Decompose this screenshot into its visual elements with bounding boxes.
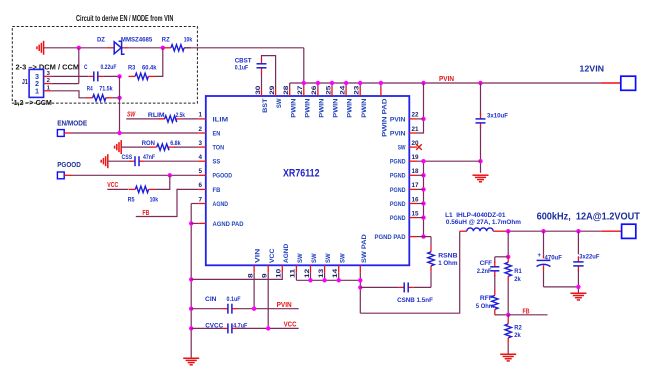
svg-text:PWIN PAD: PWIN PAD: [382, 98, 389, 136]
resistor R3 60.4k: [129, 75, 136, 77]
junction FB node: [506, 313, 510, 317]
svg-text:27: 27: [297, 85, 304, 95]
svg-text:FB: FB: [213, 187, 221, 194]
svg-text:AGND PAD: AGND PAD: [213, 221, 244, 228]
svg-text:R5: R5: [128, 197, 135, 204]
svg-text:6.8k: 6.8k: [170, 140, 181, 147]
ground (rotated) at CSS: [107, 154, 109, 168]
junctions on PVIN bus: [302, 81, 306, 85]
svg-text:2k: 2k: [514, 332, 521, 339]
svg-text:FB: FB: [523, 308, 530, 315]
wire: R3 up to DZ/RZ node: [155, 48, 163, 77]
svg-text:3x22uF: 3x22uF: [579, 254, 599, 261]
wire: pin 30 BST up to CBST: [261, 73, 263, 89]
svg-text:PVIN: PVIN: [439, 76, 454, 83]
wire: J1 pin3 to capacitor C: [51, 75, 88, 77]
wire: RLIM to pin 1 ILIM: [182, 118, 198, 120]
svg-text:1 Ohm: 1 Ohm: [438, 260, 457, 267]
capacitor CFF 2.2nF (vertical): [494, 257, 496, 263]
resistor RZ: [164, 47, 171, 49]
svg-text:SW: SW: [339, 253, 346, 263]
svg-text:PVIN: PVIN: [277, 302, 292, 309]
wire: CSNB to RSNB bottom: [414, 286, 431, 288]
wire: VCC to R5: [107, 188, 128, 190]
connector J1: [29, 69, 43, 97]
wire: pin 8 VIN down to CIN row: [253, 273, 255, 309]
zener diode DZ MMSZ4685: [107, 47, 115, 49]
svg-text:28: 28: [283, 85, 290, 95]
wire: pin 19 PGND to 3x10uF bottom: [417, 160, 481, 162]
svg-text:10: 10: [276, 268, 283, 278]
svg-text:PVIN: PVIN: [390, 116, 406, 123]
junction EN / divider node: [117, 131, 121, 135]
svg-text:PGND PAD: PGND PAD: [375, 234, 406, 241]
ground below R2: [500, 353, 516, 355]
wire: CSNB row: [360, 286, 398, 288]
dashed box: Circuit to derive EN / MODE from VIN: [12, 27, 197, 104]
svg-text:CSS: CSS: [122, 154, 133, 161]
svg-text:6: 6: [198, 182, 202, 189]
wire: 470uF bottom to gnd node: [544, 286, 579, 288]
svg-text:3: 3: [198, 140, 202, 147]
svg-text:SW: SW: [325, 253, 332, 263]
svg-text:0.1uF: 0.1uF: [227, 296, 241, 303]
svg-text:8: 8: [247, 273, 254, 278]
IC XR76112 body: [206, 96, 409, 265]
wire: R5 up to PGOOD net: [155, 175, 170, 189]
svg-text:PWIN: PWIN: [319, 98, 326, 117]
svg-text:7: 7: [198, 196, 202, 203]
resistor RLIM 2.5k: [158, 118, 165, 120]
inductor L1 IHLP-4040DZ-01: [460, 230, 467, 232]
svg-text:47nF: 47nF: [143, 154, 155, 161]
svg-text:600kHz, 12A@1.2VOUT: 600kHz, 12A@1.2VOUT: [537, 211, 640, 222]
wire: VOUT to R1/CFF node: [507, 231, 509, 257]
svg-text:CFF: CFF: [480, 260, 493, 267]
resistor R5 10k: [129, 188, 136, 190]
SW bus under IC: [296, 279, 360, 281]
CVCC row wire: [191, 327, 222, 329]
svg-text:R2: R2: [514, 324, 522, 331]
svg-text:19: 19: [412, 154, 420, 161]
svg-text:14: 14: [332, 268, 339, 278]
capacitor C 0.22uF: [88, 75, 94, 77]
svg-text:SW: SW: [311, 253, 318, 263]
svg-text:EN/MODE: EN/MODE: [57, 121, 87, 128]
wire: drop down to PVIN bus at pin 27: [303, 48, 305, 83]
wire: SW PAD down: [359, 273, 361, 313]
svg-text:13: 13: [318, 268, 325, 278]
junction AGND rail / CVCC: [189, 326, 193, 330]
wires: SW pins 11-14 to bus: [295, 273, 297, 281]
svg-text:16: 16: [412, 196, 420, 203]
svg-text:RON: RON: [142, 140, 155, 147]
wire: pin 7 AGND to left rail: [191, 203, 198, 205]
resistor RSNB 1 Ohm (vertical): [430, 237, 432, 247]
svg-text:VCC: VCC: [284, 322, 297, 329]
svg-text:TON: TON: [213, 145, 225, 152]
junctions VOUT rail: [506, 229, 510, 233]
svg-text:PGND: PGND: [390, 201, 406, 208]
svg-text:PGOOD: PGOOD: [213, 173, 233, 180]
wire: gnd to CSS: [108, 160, 131, 162]
wire: RFF to FB node: [495, 314, 508, 316]
port 12VIN: [601, 82, 621, 84]
svg-text:17: 17: [412, 182, 420, 189]
resistor R2 2k (vertical): [507, 315, 509, 319]
svg-text:PWIN: PWIN: [304, 98, 311, 117]
resistor RON 6.8k: [150, 146, 157, 148]
svg-text:SS: SS: [213, 159, 221, 166]
wire: J1 pin1 jog down to R4: [51, 91, 86, 98]
junction AGND rail / pin10: [189, 277, 193, 281]
wire: gnd to RON: [121, 146, 151, 148]
svg-text:SW: SW: [398, 145, 406, 152]
svg-text:2: 2: [198, 126, 202, 133]
capacitor 470uF (polarized): [543, 231, 545, 255]
svg-text:SW: SW: [297, 253, 304, 263]
svg-text:2k: 2k: [514, 276, 521, 283]
svg-text:10k: 10k: [150, 197, 159, 204]
svg-text:21: 21: [412, 126, 420, 133]
wire: CFF to RFF: [494, 275, 496, 290]
svg-text:10k: 10k: [184, 36, 193, 43]
wire: PGND PAD to RSNB: [417, 236, 431, 238]
wire: J1 pin2 to vertical: [51, 83, 79, 85]
svg-text:EN: EN: [213, 130, 221, 137]
port VOUT: [601, 230, 621, 232]
capacitor CIN 0.1uF: [222, 308, 228, 310]
junction AGND rail / CIN: [189, 307, 193, 311]
svg-text:0.56uH @ 27A, 1.7mOhm: 0.56uH @ 27A, 1.7mOhm: [446, 219, 521, 226]
capacitor CSNB 1.5nF: [399, 286, 405, 288]
junction CIN/pin8: [252, 307, 256, 311]
wire: R4 to node, junction: [112, 97, 119, 99]
capacitor 3x22uF: [577, 231, 579, 254]
svg-text:DZ: DZ: [97, 36, 105, 43]
svg-text:5: 5: [198, 168, 202, 175]
svg-text:RZ: RZ: [162, 36, 170, 43]
svg-text:R3: R3: [128, 65, 136, 72]
svg-text:AGND: AGND: [213, 201, 229, 208]
svg-text:BST: BST: [262, 98, 269, 113]
wire: RON to pin 3 TON: [174, 146, 198, 148]
svg-text:23: 23: [354, 85, 361, 95]
svg-text:11: 11: [290, 268, 297, 278]
svg-text:VIN: VIN: [255, 249, 262, 263]
wire: CVCC to VCC label end: [237, 327, 298, 329]
svg-text:RSNB: RSNB: [438, 252, 457, 259]
svg-text:PVIN: PVIN: [390, 130, 406, 137]
junction output gnd node: [576, 285, 580, 289]
wire: AGND PAD stub: [191, 222, 198, 224]
wire: pin 10 AGND to left rail: [191, 273, 282, 280]
capacitor CVCC 4.7uF: [222, 327, 228, 329]
top pin stubs 30-23 and PWIN PAD: [261, 89, 263, 97]
J1 pin 3 stub: [44, 75, 51, 77]
junctions SW bus: [308, 278, 312, 282]
ground bottom-left: [183, 357, 199, 359]
ground (rotated) at RON: [120, 140, 122, 154]
svg-text:15: 15: [412, 210, 420, 217]
svg-text:29: 29: [269, 85, 276, 95]
svg-text:60.4k: 60.4k: [142, 65, 157, 72]
wire: bus drop to PVIN pins 22/21: [417, 83, 424, 133]
wire: vertical from top wire down to J1 pin 2 row: [78, 48, 80, 84]
svg-text:CIN: CIN: [205, 296, 217, 303]
VOUT rail: [507, 230, 601, 232]
capacitor CBST 0.1uF: [261, 58, 263, 64]
svg-text:RFF: RFF: [480, 295, 493, 302]
svg-text:XR76112: XR76112: [283, 168, 320, 180]
svg-text:FB: FB: [142, 210, 149, 217]
svg-text:PGND: PGND: [390, 173, 406, 180]
wire: CBST top over to pin 29 SW: [262, 56, 276, 89]
svg-text:SW: SW: [127, 111, 136, 118]
wire: CSS to pin 4 SS: [145, 160, 199, 162]
svg-text:C: C: [84, 64, 88, 71]
svg-text:RLIM: RLIM: [148, 112, 165, 119]
svg-text:71.5k: 71.5k: [99, 86, 113, 93]
wires: PGND pins to vertical: [417, 174, 424, 176]
junction 3x10uF / PGND wire: [478, 159, 482, 163]
resistor RFF 5 Ohm (vertical): [494, 290, 496, 296]
wire: pin 9 VCC down to CVCC row: [267, 273, 269, 329]
svg-text:PWIN: PWIN: [290, 98, 297, 117]
wire: DZ to RZ: [129, 47, 164, 49]
svg-text:0.22uF: 0.22uF: [101, 64, 117, 71]
wire: CIN to PVIN label end: [237, 308, 298, 310]
wire: RZ to PVIN bus drop: [184, 47, 304, 49]
wire: SW run to inductor: [360, 231, 459, 313]
capacitor 3x10uF branch: [480, 83, 482, 115]
svg-text:CSNB 1.5nF: CSNB 1.5nF: [397, 297, 433, 304]
junction PGOOD / R5 pullup: [168, 173, 172, 177]
svg-text:24: 24: [339, 85, 346, 95]
svg-text:PGND: PGND: [390, 187, 406, 194]
svg-text:2.2nF: 2.2nF: [477, 268, 492, 275]
svg-text:MMSZ4685: MMSZ4685: [121, 36, 153, 43]
svg-text:9: 9: [262, 273, 269, 278]
bottom pin stubs 8-14 and SW PAD: [253, 265, 255, 273]
left pin stubs 1-7 and AGND PAD: [198, 118, 206, 120]
wire: EN/MODE port to pin 2 EN: [64, 132, 71, 134]
svg-text:4: 4: [198, 154, 202, 161]
svg-text:Circuit to derive EN / MODE fr: Circuit to derive EN / MODE from VIN: [76, 14, 174, 23]
ground below output caps: [570, 292, 586, 294]
svg-text:2.5k: 2.5k: [176, 112, 185, 119]
svg-text:PGND: PGND: [390, 215, 406, 222]
right pin stubs 22-15 and PGND PAD: [409, 118, 417, 120]
svg-text:PGND: PGND: [390, 159, 406, 166]
svg-text:+: +: [538, 253, 542, 259]
svg-text:470uF: 470uF: [545, 254, 562, 261]
svg-text:25: 25: [325, 85, 332, 95]
ground (rotated) top-left in box: [43, 41, 45, 55]
svg-text:PGOOD: PGOOD: [57, 162, 81, 169]
svg-text:CVCC: CVCC: [205, 323, 223, 330]
PVIN bus wire: [290, 82, 601, 84]
junction R1/CFF: [506, 255, 510, 259]
svg-text:0.1uF: 0.1uF: [235, 64, 249, 71]
svg-text:PWIN: PWIN: [361, 98, 368, 117]
wire: pin 22 to drop: [417, 118, 424, 120]
junctions PGND pins: [421, 159, 425, 163]
svg-text:PWIN: PWIN: [333, 98, 340, 117]
svg-text:1: 1: [35, 86, 39, 95]
wire: C to node, junction: [103, 75, 119, 77]
svg-text:12: 12: [304, 268, 311, 278]
svg-text:AGND: AGND: [283, 244, 290, 263]
wires: top pins 28-23 and PWIN PAD up to bus: [289, 83, 291, 89]
svg-text:VCC: VCC: [269, 249, 276, 263]
capacitor CSS 47nF: [129, 160, 135, 162]
svg-text:22: 22: [412, 112, 420, 119]
svg-text:ILIM: ILIM: [213, 116, 229, 123]
wire: left AGND rail down to ground: [190, 204, 192, 359]
svg-text:VCC: VCC: [107, 182, 118, 189]
svg-text:PWIN: PWIN: [347, 98, 354, 117]
wire: gnd to zener DZ: [44, 47, 107, 49]
junction AGND PAD: [189, 221, 193, 225]
svg-text:30: 30: [255, 85, 262, 95]
svg-text:12VIN: 12VIN: [579, 64, 604, 74]
J1 pin 1 stub: [44, 90, 51, 92]
wire: PGOOD port to pin 5: [64, 174, 71, 176]
resistor R4 71.5k: [86, 97, 93, 99]
svg-text:SW: SW: [276, 98, 283, 108]
svg-text:5 Ohm: 5 Ohm: [476, 303, 494, 310]
svg-text:26: 26: [311, 85, 318, 95]
CIN row wire: [191, 308, 222, 310]
svg-text:J1: J1: [22, 79, 28, 86]
svg-text:R1: R1: [514, 268, 522, 275]
resistor R1 2k (vertical): [507, 257, 509, 263]
PGND vertical tie wire: [423, 161, 425, 236]
no-connect X on pin 20 SW: [416, 144, 422, 150]
svg-text:1: 1: [198, 112, 202, 119]
svg-text:R4: R4: [87, 86, 93, 93]
wire: node vertical C/R4 down to EN row: [119, 76, 121, 133]
ground below 3x10uF: [473, 174, 489, 176]
J1 pin 2 stub: [44, 83, 51, 85]
svg-text:SW PAD: SW PAD: [361, 234, 368, 263]
svg-text:3x10uF: 3x10uF: [487, 112, 508, 119]
svg-text:1,2 –> CCM: 1,2 –> CCM: [14, 100, 52, 107]
FB net wire right: [508, 314, 547, 316]
junction CVCC/pin9: [266, 326, 270, 330]
svg-text:18: 18: [412, 168, 420, 175]
wire: CFF branch top: [495, 256, 508, 258]
wire: SW to RLIM: [126, 118, 165, 120]
junction DZ/RZ/R3 node: [161, 46, 165, 50]
wire: pin 6 FB down-left to FB label: [136, 189, 199, 216]
junction at vertical to J1/C network: [77, 46, 81, 50]
junction SW / CSNB: [358, 285, 362, 289]
